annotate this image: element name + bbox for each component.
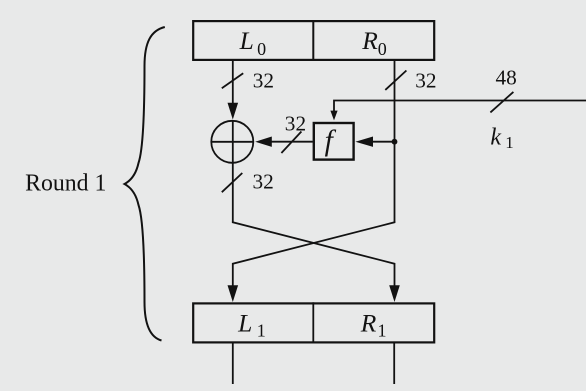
svg-text:R: R [360,308,377,337]
brace for Round 1 [125,27,165,341]
slash 32 on f output [281,132,301,154]
svg-text:R: R [361,26,378,55]
svg-text:32: 32 [415,69,436,93]
arrowhead f output into XOR [255,137,272,147]
svg-text:1: 1 [257,321,266,341]
svg-text:0: 0 [257,39,266,59]
slash 32 on R0 wire [385,71,406,90]
junction dot [392,139,398,145]
divider of top box [312,20,314,61]
wire L0 down to XOR [232,61,234,104]
svg-text:L: L [237,308,252,337]
svg-text:32: 32 [253,169,274,193]
svg-text:32: 32 [253,68,274,92]
svg-text:k: k [490,124,501,150]
f box [314,123,354,160]
svg-text:48: 48 [496,65,517,89]
crossover wire right to left [233,222,395,288]
svg-text:L: L [239,26,254,55]
crossover wire left to right [233,222,395,288]
arrowhead into R1 [389,285,400,302]
slash 32 below XOR [222,173,243,192]
svg-text:1: 1 [378,321,387,341]
wire f to XOR [271,141,313,143]
arrowhead into f right [355,137,373,147]
xor cross horizontal [211,141,253,143]
wire below L1 [232,344,234,385]
arrowhead into XOR top [228,103,239,120]
xor cross vertical [232,121,234,163]
svg-text:0: 0 [378,39,387,59]
wire XOR down [232,163,234,223]
wire R0 down [394,61,396,222]
register box L1/R1 [193,303,434,342]
arrowhead into L1 [228,285,239,302]
wire junction to f [372,141,395,143]
xor circle [211,121,253,163]
register box L0/R0 [193,21,434,60]
small arrowhead key into f top [330,111,337,121]
svg-text:1: 1 [505,133,514,152]
slash 48 on key wire [490,92,513,113]
svg-text:Round 1: Round 1 [25,171,106,197]
key wire k1 [334,101,586,112]
slash 32 on L0 wire [222,73,243,88]
divider of bottom box [312,302,314,343]
svg-text:32: 32 [285,111,306,135]
wire below R1 [393,344,395,385]
